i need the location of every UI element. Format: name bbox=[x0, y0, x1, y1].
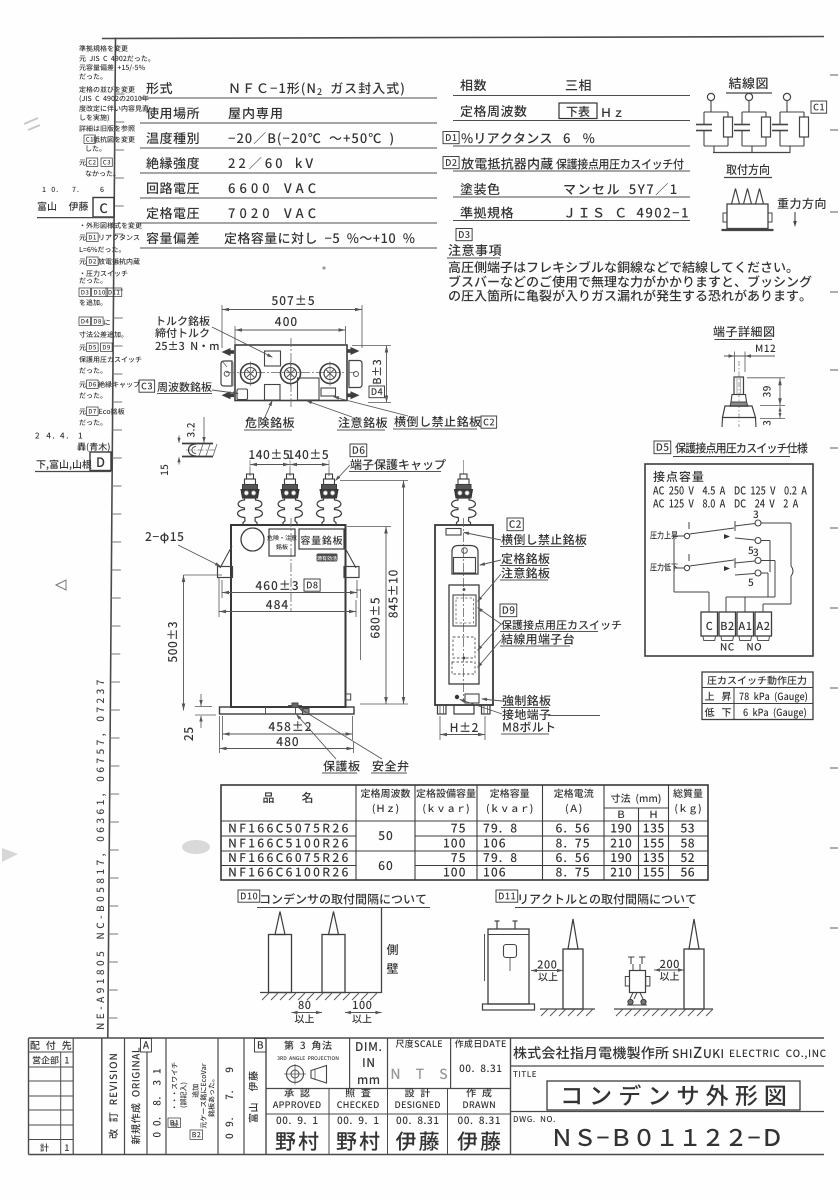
side view forced plate label bbox=[481, 695, 551, 708]
front view body height dimension 680 bbox=[347, 527, 391, 705]
side view ground terminal labels bbox=[459, 699, 600, 734]
drawing title bbox=[513, 1071, 800, 1110]
approval header cells bbox=[273, 1088, 495, 1108]
operating pressure table bbox=[702, 672, 813, 720]
front view bushing 1 bbox=[238, 460, 263, 525]
terminal detail title bbox=[713, 326, 774, 340]
dimension unit cell bbox=[356, 1042, 381, 1084]
side view bushing bbox=[451, 460, 476, 525]
ratings table grid bbox=[221, 785, 708, 880]
scale cell bbox=[392, 1039, 447, 1079]
danger plate label bbox=[244, 400, 294, 430]
top view tank body bbox=[226, 338, 356, 407]
front view bushing 2 bbox=[278, 460, 303, 525]
front view width dimensions 460 and 484 bbox=[219, 577, 357, 617]
pressure switch terminal blocks bbox=[701, 612, 772, 651]
side view bottom plate and ground stud bbox=[455, 694, 479, 703]
front view bushing 3 bbox=[317, 460, 342, 525]
reactor spacing cubicle drawing bbox=[483, 921, 535, 1010]
capacitor next to cubicle bbox=[540, 919, 595, 1016]
right edge ruler dashes bbox=[830, 75, 838, 928]
top view left bracket bbox=[221, 348, 234, 399]
front view right mounting bracket bbox=[344, 546, 359, 578]
mounting direction title bbox=[724, 164, 772, 178]
wiring diagram bottom bus wire bbox=[713, 152, 791, 154]
front view left mounting bracket bbox=[218, 546, 233, 578]
terminal protection cap label bbox=[335, 444, 446, 481]
title block grid center bbox=[266, 1038, 511, 1155]
protection plate label bbox=[296, 714, 360, 773]
gravity direction label and arrow bbox=[778, 198, 826, 227]
reactor spacing section title bbox=[496, 890, 696, 908]
pressure switch spec box and contact ratings bbox=[645, 464, 813, 656]
side view do-not-tip plate bbox=[446, 529, 461, 536]
frequency plate label bbox=[139, 380, 239, 395]
side view depth dimension H bbox=[440, 716, 485, 740]
front view overall height dimension 845 bbox=[340, 481, 408, 705]
safety valve label bbox=[298, 707, 408, 773]
revision marker C1 at wiring diagram bbox=[811, 101, 827, 113]
terminal stud detail drawing bbox=[722, 345, 785, 428]
cubicle spacing dimension bbox=[531, 960, 563, 981]
date cell bbox=[455, 1039, 506, 1072]
approval signatures bbox=[276, 1117, 501, 1151]
top view nameplates bbox=[237, 351, 336, 400]
wiring diagram capacitor unit phase U bbox=[696, 93, 733, 152]
side view rating plate label bbox=[479, 553, 550, 566]
front view tank body bbox=[231, 518, 346, 707]
front view base dimensions 458 and 480 bbox=[220, 716, 354, 753]
front view top plates and eco label bbox=[241, 528, 344, 562]
ratings table headers bbox=[263, 789, 702, 819]
side view tank body bbox=[435, 518, 493, 705]
pressure switch spec title bbox=[654, 441, 808, 457]
mounting direction unit sketch bbox=[722, 189, 774, 231]
left margin center triangle marker bbox=[56, 580, 66, 590]
front view height dimension 500 bbox=[167, 575, 222, 711]
wiring diagram title bbox=[726, 77, 772, 93]
wiring diagram capacitor unit phase V bbox=[734, 93, 771, 152]
reactor sketch bbox=[625, 957, 650, 1006]
top view height dimension B bbox=[352, 346, 391, 403]
torque plate label bbox=[155, 316, 273, 358]
do-not-tip plate label top view bbox=[333, 396, 497, 429]
top view right bracket bbox=[347, 347, 362, 399]
side view pressure switch label bbox=[477, 604, 621, 651]
front view bushing pitch dimensions bbox=[249, 449, 329, 476]
wiring diagram capacitor unit phase W bbox=[772, 93, 809, 152]
left margin revision notes bbox=[35, 45, 150, 471]
left border fold ticks bbox=[108, 94, 125, 1018]
top view bushing flanges bbox=[241, 362, 341, 387]
capacitor spacing section title bbox=[238, 890, 430, 908]
side view caution plate label bbox=[477, 567, 550, 602]
bracket weld detail bbox=[161, 417, 217, 475]
top view width dimensions 507 and 400 bbox=[222, 295, 362, 348]
drawing frame top border bbox=[102, 37, 824, 39]
side view rating plate bbox=[452, 546, 478, 575]
caution plate label bbox=[306, 401, 387, 431]
side view terminal block label bbox=[477, 633, 574, 668]
side view switch panel plates bbox=[449, 585, 479, 684]
revision record columns bbox=[102, 1038, 266, 1155]
vertical drawing number text bbox=[97, 680, 107, 1029]
reactor spacing dimension bbox=[654, 960, 684, 981]
front view base skid and safety valve bbox=[220, 694, 355, 715]
specification table right column and notes bbox=[443, 79, 812, 302]
distribution table bbox=[29, 1038, 74, 1155]
third angle projection symbol bbox=[277, 1041, 338, 1085]
side view base feet bbox=[438, 705, 491, 714]
company name bbox=[511, 1046, 826, 1066]
pressure switch circuit bbox=[650, 511, 793, 613]
side view do-not-tip label bbox=[463, 518, 587, 547]
drawing number bbox=[511, 1112, 825, 1147]
title block outer horizontals bbox=[29, 1038, 825, 1155]
front view bolt hole callout bbox=[145, 532, 221, 567]
front view base height dimension 25 bbox=[184, 694, 216, 741]
scan smudge artifacts bbox=[2, 118, 326, 862]
front view bracket extension line bbox=[356, 589, 361, 660]
ratings table data bbox=[229, 824, 694, 877]
specification table left column bbox=[140, 82, 437, 248]
capacitor spacing drawing bbox=[260, 908, 398, 1023]
capacitor next to reactor bbox=[614, 919, 713, 1016]
drawing frame left border bbox=[108, 38, 116, 1039]
